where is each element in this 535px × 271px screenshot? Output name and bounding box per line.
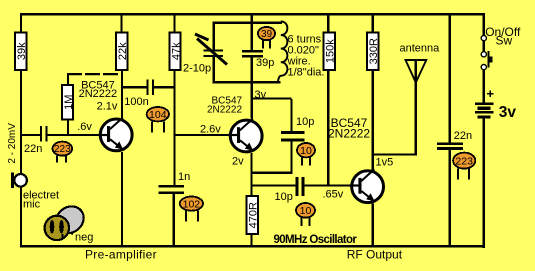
svg-text:2v: 2v xyxy=(232,156,244,168)
resistor R2 22k xyxy=(116,33,129,71)
svg-text:2.6v: 2.6v xyxy=(200,123,221,135)
svg-text:10: 10 xyxy=(300,145,312,157)
wire 1M bottom leg xyxy=(67,120,69,136)
resistor R6 150k xyxy=(324,33,337,71)
resistor R1 39k xyxy=(15,33,28,71)
svg-text:neg: neg xyxy=(75,232,93,244)
battery B1 3v xyxy=(475,91,517,122)
svg-text:2-10p: 2-10p xyxy=(183,63,211,75)
wire 39k top leg xyxy=(20,13,22,32)
svg-text:223: 223 xyxy=(455,156,473,168)
svg-text:104: 104 xyxy=(149,109,167,121)
wire 470R bottom leg xyxy=(250,234,252,246)
capacitor pictorial 223 left xyxy=(53,142,73,163)
wire 1M top leg xyxy=(67,74,69,85)
svg-text:22n: 22n xyxy=(24,143,42,155)
svg-text:39p: 39p xyxy=(256,57,274,69)
wire top supply rail xyxy=(20,13,485,15)
svg-text:2N2222: 2N2222 xyxy=(328,127,370,141)
capacitor C3 1n xyxy=(158,171,190,194)
switch On/Off xyxy=(481,13,521,69)
wire 1n bottom leg xyxy=(173,194,175,246)
wire 100n to 47k leg xyxy=(154,86,175,88)
wire 10p to Q3 base xyxy=(305,184,351,186)
label BC547 2N2222 Q2 xyxy=(207,95,243,115)
svg-text:1M: 1M xyxy=(63,95,75,110)
label BC547 2N2222 Q3 xyxy=(328,116,370,140)
wire Q1 collector to 100n xyxy=(122,86,147,88)
wire 47k top leg xyxy=(173,13,175,32)
wire 150k bottom leg to Q3 base xyxy=(327,70,329,187)
capacitor C1 22n xyxy=(24,126,48,155)
wire emitter to coupling 10p xyxy=(250,184,295,186)
transistor Q3 BC547 xyxy=(350,169,384,202)
svg-text:22n: 22n xyxy=(454,130,472,142)
svg-text:1n: 1n xyxy=(178,171,190,183)
capacitor pictorial 10 lower xyxy=(296,203,315,226)
capacitor C2 100n xyxy=(124,80,154,108)
svg-text:3v: 3v xyxy=(499,104,517,121)
transistor Q2 BC547 xyxy=(228,119,262,152)
svg-text:2N2222: 2N2222 xyxy=(207,105,242,116)
wire 150k top leg xyxy=(327,13,329,32)
wire 39k bottom leg down to mic xyxy=(20,70,22,174)
wire emitter branch horizontal xyxy=(250,172,292,174)
capacitor C6 10p coupling xyxy=(275,177,305,203)
wire mic to ground xyxy=(20,188,22,246)
wire Q3 collector up to 330R xyxy=(372,70,374,171)
transistor Q1 BC547 xyxy=(98,118,132,151)
svg-text:10: 10 xyxy=(300,205,312,217)
wire switch to battery xyxy=(483,69,485,102)
svg-text:100n: 100n xyxy=(124,96,148,108)
svg-text:1v5: 1v5 xyxy=(376,156,394,168)
label 6 turns 0.020" wire 1/8" dia xyxy=(287,34,325,79)
wire bottom ground rail xyxy=(20,245,485,248)
antenna xyxy=(400,43,441,156)
svg-text:470R: 470R xyxy=(248,202,260,228)
wire 330R top leg xyxy=(372,13,374,32)
microphone pictorial xyxy=(45,201,89,240)
svg-text:RF Output: RF Output xyxy=(347,248,403,262)
svg-text:2.1v: 2.1v xyxy=(97,101,118,113)
svg-text:10p: 10p xyxy=(296,116,314,128)
svg-text:Pre-amplifier: Pre-amplifier xyxy=(85,248,157,262)
wire dashed 1M feedback xyxy=(67,73,122,75)
electret mic symbol xyxy=(11,173,27,189)
svg-text:.65v: .65v xyxy=(323,188,344,200)
resistor R7 330R xyxy=(367,33,380,71)
wire down to 10p top plate xyxy=(290,99,292,131)
svg-text:39: 39 xyxy=(261,29,273,40)
wire battery to ground rail xyxy=(483,118,485,247)
wire 1v5 collector to antenna xyxy=(373,153,417,155)
svg-text:90MHz Oscillator: 90MHz Oscillator xyxy=(274,234,358,246)
wire 39p top leg from rail xyxy=(251,13,253,50)
wire Q3 emitter to ground xyxy=(372,204,374,246)
capacitor pictorial 104 xyxy=(147,107,169,132)
label BC547 2N2222 Q1 xyxy=(79,79,118,100)
svg-text:mic: mic xyxy=(23,199,41,211)
resistor R5 470R xyxy=(247,196,260,234)
label electret mic xyxy=(23,190,59,211)
svg-text:102: 102 xyxy=(183,198,201,210)
wire 22n right top leg xyxy=(449,13,451,142)
svg-text:.6v: .6v xyxy=(77,121,92,133)
trimmer capacitor VC1 2-10p xyxy=(183,22,227,84)
wire Q1 base wire right segment xyxy=(48,134,100,136)
wire Q1 emitter to ground xyxy=(121,152,123,246)
svg-text:39k: 39k xyxy=(16,42,28,60)
wire Q1 base wire left segment xyxy=(20,134,40,136)
capacitor C5 10p feedback xyxy=(281,116,314,141)
svg-text:2N2222: 2N2222 xyxy=(79,88,118,100)
capacitor pictorial 10 upper xyxy=(297,143,315,165)
wire 22k bottom leg to Q1 collector xyxy=(121,70,123,119)
label neg xyxy=(71,231,93,243)
inductor L1 6 turns xyxy=(278,21,288,81)
svg-text:223: 223 xyxy=(54,144,71,155)
svg-text:10p: 10p xyxy=(275,191,293,203)
resistor R3 1M xyxy=(62,85,75,120)
wire trimmer bottom to coil bottom xyxy=(213,81,281,83)
capacitor pictorial 39 xyxy=(258,27,275,49)
wire 22k top leg xyxy=(121,13,123,32)
svg-text:antenna: antenna xyxy=(400,43,441,55)
svg-text:1/8"dia.: 1/8"dia. xyxy=(288,67,325,79)
svg-text:47k: 47k xyxy=(170,42,182,60)
svg-text:2 - 20mV: 2 - 20mV xyxy=(7,123,18,164)
wire trimmer top to coil xyxy=(213,22,282,24)
wire 39p bottom leg to Q2 collector xyxy=(251,58,253,119)
wire 3v node branch to 10p xyxy=(252,97,292,99)
capacitor pictorial 102 xyxy=(180,197,203,222)
wire 47k bottom leg down to 1n xyxy=(173,70,175,185)
svg-text:22k: 22k xyxy=(117,42,129,60)
svg-text:330R: 330R xyxy=(368,38,380,64)
wire Q2 emitter down xyxy=(250,153,252,196)
wire 10p bottom to emitter wire xyxy=(290,141,292,174)
wire Q2 base wire xyxy=(175,134,230,136)
capacitor pictorial 223 right xyxy=(453,153,475,180)
capacitor C4 39p xyxy=(242,50,274,69)
wire 22n bottom leg xyxy=(449,150,451,246)
svg-text:Sw: Sw xyxy=(496,34,513,48)
resistor R4 47k xyxy=(169,33,182,71)
svg-text:150k: 150k xyxy=(325,39,337,63)
capacitor C7 22n decoupling xyxy=(437,130,472,150)
